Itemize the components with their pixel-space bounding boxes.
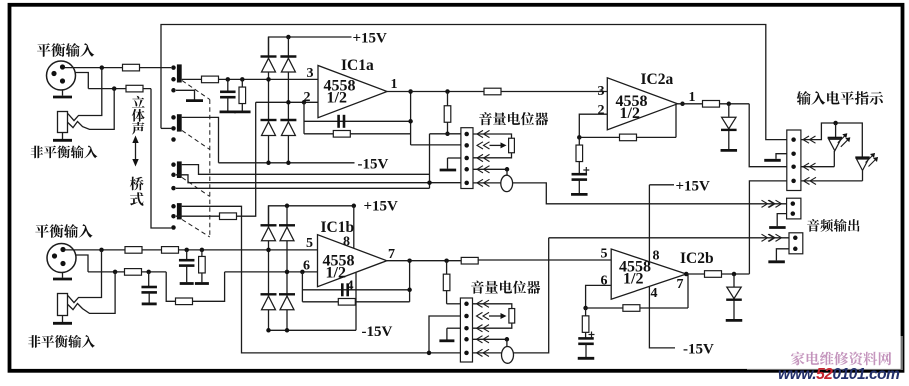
output arrows 2 bbox=[762, 234, 768, 241]
label volume pot A bbox=[479, 112, 548, 125]
+15V wire IC2b bbox=[649, 184, 674, 186]
node B1 bbox=[99, 248, 104, 253]
feedback right vertical A bbox=[410, 92, 412, 145]
capacitor C2 feedback bbox=[337, 115, 340, 128]
jack J4 body bbox=[58, 294, 68, 316]
LED D6 stem bbox=[835, 123, 837, 138]
pot B element top bbox=[473, 304, 512, 309]
node IC2a fb bbox=[577, 135, 582, 140]
diode D11 bbox=[279, 293, 295, 295]
wire row1 B bbox=[447, 303, 461, 305]
wire pot A left vertical bbox=[429, 134, 431, 189]
node fb out B bbox=[407, 258, 412, 263]
node railB -15 col1 bbox=[266, 328, 271, 333]
node rail B col2 bbox=[285, 204, 290, 209]
switch SW1 bbox=[171, 65, 176, 70]
svg-text:7: 7 bbox=[388, 247, 395, 262]
pot A element bottom bbox=[473, 153, 512, 158]
label unbalanced input A bbox=[31, 145, 98, 158]
resistor R5 feedback bbox=[333, 131, 350, 138]
jack J2 sleeve hook bbox=[68, 89, 114, 130]
wire row2 A wiper bbox=[411, 144, 461, 146]
node LED feed bbox=[727, 102, 732, 107]
feedback cap line A bbox=[304, 120, 411, 122]
feedback left vertical B bbox=[301, 272, 303, 302]
IC2b output wire bbox=[686, 273, 705, 275]
svg-text:IC1a: IC1a bbox=[341, 57, 374, 74]
wire row4 to jack B bbox=[506, 339, 508, 346]
wire B2 detour bbox=[166, 272, 175, 301]
IC2b feedback line bbox=[586, 307, 688, 309]
resistor R17 feedback bbox=[338, 299, 355, 306]
svg-text:7: 7 bbox=[677, 277, 684, 292]
wire out to LED node bbox=[720, 103, 750, 105]
row3 A ground bbox=[448, 157, 461, 159]
output 1 contacts bbox=[791, 201, 796, 206]
node C1 tap bbox=[226, 77, 231, 82]
svg-text:5: 5 bbox=[306, 236, 313, 251]
jack symbol A bbox=[501, 175, 513, 191]
capacitor C5 bbox=[148, 272, 150, 287]
wire 2 A bbox=[88, 88, 151, 90]
node fb out A bbox=[408, 89, 413, 94]
wire SW3 c3 line L3 bbox=[176, 187, 430, 189]
+15V rail B bbox=[269, 206, 354, 225]
+15V rail A bbox=[269, 37, 352, 56]
wire row4 B bbox=[473, 338, 507, 340]
LED row4 chevrons bbox=[804, 177, 810, 184]
output block 1 bbox=[787, 198, 801, 219]
capacitor C4 bbox=[186, 250, 188, 260]
op-amp IC1b bbox=[318, 235, 387, 287]
wire row5 A right bbox=[473, 182, 501, 184]
svg-text:8: 8 bbox=[653, 249, 660, 264]
svg-text:1: 1 bbox=[391, 77, 398, 92]
pot block B bbox=[460, 298, 472, 362]
pot A element top bbox=[473, 134, 512, 139]
diode D10 bbox=[261, 293, 277, 295]
resistor R10 after SW4 bbox=[220, 213, 237, 220]
wire IC1a pin2 bbox=[256, 101, 318, 103]
IC1b output wire bbox=[387, 260, 462, 262]
node pin6 fb tap bbox=[300, 270, 305, 275]
pin4 wire IC2b bbox=[649, 287, 675, 348]
svg-text:1/2: 1/2 bbox=[620, 105, 640, 122]
wire J1 pin3 chord bbox=[75, 73, 89, 89]
svg-text:2: 2 bbox=[598, 103, 605, 118]
label volume pot B bbox=[471, 281, 540, 294]
resistor R1 bbox=[123, 64, 140, 71]
node out chain A bbox=[445, 89, 450, 94]
jack J4 tip hook bbox=[68, 250, 102, 303]
resistor R2 bbox=[126, 85, 143, 92]
wire SW3 c1 line L1 bbox=[182, 165, 430, 175]
wire row4 to jack A bbox=[506, 169, 508, 175]
capacitor C7 electrolytic bbox=[578, 337, 594, 340]
svg-text:3: 3 bbox=[307, 66, 314, 81]
node A1 bbox=[100, 65, 105, 70]
resistor R12 bbox=[125, 247, 142, 254]
IC2a feedback up bbox=[675, 104, 677, 138]
node B res tap bbox=[200, 248, 205, 253]
wire to IC2a pin3 bbox=[501, 91, 607, 93]
clamp column B1 bbox=[268, 206, 270, 330]
capacitor C6 feedback bbox=[341, 283, 344, 296]
node rail -15 col2 bbox=[286, 161, 291, 166]
ground of J2 bbox=[62, 133, 64, 140]
ground of J1 bbox=[62, 90, 64, 96]
wire J1 pin2 to node A1 bbox=[65, 67, 172, 69]
node out chain B bbox=[444, 258, 449, 263]
pot element RP2 bbox=[509, 309, 515, 324]
LED block contacts bbox=[791, 137, 796, 142]
diode D5 bbox=[728, 104, 730, 117]
resistor R21 gain bbox=[585, 308, 587, 316]
wire SW4 c1 to pot B bbox=[182, 206, 461, 353]
feedback cap line B bbox=[302, 289, 409, 291]
LED row1 chevrons bbox=[803, 136, 809, 143]
LED D7 bbox=[855, 156, 869, 158]
pot B wiper arrow bbox=[489, 315, 502, 317]
resistor R7 to IC2a bbox=[484, 88, 501, 95]
resistor R8 feedback IC2a bbox=[620, 134, 637, 141]
IC2a output wire bbox=[678, 103, 703, 105]
svg-text:5: 5 bbox=[601, 247, 608, 262]
pot B chevrons bbox=[477, 300, 483, 307]
wire bus to SW2 c2 bbox=[161, 127, 171, 129]
LED D7 to row4 bbox=[862, 171, 864, 181]
pot B element bottom bbox=[473, 323, 512, 328]
output 2 ground bbox=[776, 249, 789, 261]
svg-text:1/2: 1/2 bbox=[326, 265, 346, 282]
node B2 bbox=[113, 270, 118, 275]
svg-text:IC2b: IC2b bbox=[680, 250, 714, 267]
ground of J3 bbox=[62, 273, 64, 278]
diode D2 bbox=[280, 55, 296, 57]
wire SW2 c1 to -15V rail bbox=[182, 117, 219, 162]
clamp column A1 bbox=[268, 37, 270, 163]
LED bridge wire bbox=[801, 123, 862, 157]
clamp column B2 bbox=[286, 206, 288, 330]
-15V rail B bbox=[269, 329, 357, 331]
wire R2 down to SW4 bbox=[151, 89, 171, 228]
diode D9 bbox=[279, 224, 295, 226]
capacitor C3 electrolytic bbox=[572, 173, 588, 176]
svg-text:6: 6 bbox=[601, 274, 608, 289]
dashed gang link bbox=[182, 81, 210, 100]
wire pin1 node to LED row3 bbox=[749, 104, 787, 167]
output 1 ground bbox=[777, 214, 786, 227]
wire B2 bbox=[88, 271, 166, 273]
wire B1 to IC1b pin5 bbox=[65, 249, 318, 251]
svg-text:-15V: -15V bbox=[362, 324, 393, 340]
resistor R15 bbox=[125, 269, 142, 276]
switch SW4 bbox=[171, 204, 176, 209]
row3 B ground bbox=[447, 327, 461, 329]
output block 2 bbox=[789, 233, 803, 254]
diode D12 bbox=[733, 274, 735, 287]
svg-text:www.520101.com: www.520101.com bbox=[778, 366, 900, 381]
SW1 contact3 ground bbox=[176, 90, 195, 99]
svg-text:8: 8 bbox=[343, 235, 350, 250]
node pin2 col2 bbox=[286, 100, 291, 105]
node A2 bbox=[112, 86, 117, 91]
diode D1 bbox=[261, 55, 277, 57]
wire LED row4 to IC2b out bbox=[749, 181, 786, 274]
pot A contacts bbox=[464, 132, 469, 137]
pot A chevrons bbox=[477, 130, 483, 137]
resistor R11 out bbox=[703, 101, 720, 108]
svg-text:IC2a: IC2a bbox=[641, 71, 674, 88]
node rail -15 col1 bbox=[266, 161, 271, 166]
pot B contacts bbox=[464, 302, 469, 307]
svg-text:1/2: 1/2 bbox=[327, 90, 347, 107]
node IC2a out bbox=[680, 102, 685, 107]
wire to IC2b pin5 bbox=[478, 259, 612, 261]
node IC2b out R bbox=[732, 272, 737, 277]
XLR connector J1 bbox=[47, 61, 76, 90]
resistor R4 bbox=[241, 79, 243, 87]
feedback res line B bbox=[302, 301, 409, 303]
switch SW2 bbox=[171, 115, 176, 120]
jack symbol B bbox=[502, 347, 514, 364]
resistor R22 out bbox=[705, 271, 722, 278]
clamp column A2 bbox=[287, 37, 289, 163]
wire row4 to D7 bbox=[801, 180, 863, 182]
pot A wiper arrow bbox=[490, 144, 503, 146]
node R4 tap bbox=[240, 77, 245, 82]
op-amp IC1a bbox=[318, 66, 387, 118]
mode arrow bbox=[135, 138, 137, 164]
node L2 junction bbox=[427, 180, 432, 185]
pot block A bbox=[461, 128, 473, 189]
resistor R19 to IC2b bbox=[461, 257, 478, 264]
wire B2 to IC1b pin6 bbox=[225, 271, 318, 273]
node pin5 col1 bbox=[266, 248, 271, 253]
XLR connector J3 bbox=[47, 244, 76, 273]
wire row1 A bbox=[430, 133, 461, 135]
wire out to row4 node bbox=[721, 273, 749, 275]
LED D6 bbox=[828, 137, 842, 139]
svg-text:IC1b: IC1b bbox=[321, 219, 355, 236]
diode D8 bbox=[261, 224, 277, 226]
wire J3 pin3 chord bbox=[75, 255, 88, 272]
LED row2 ground bbox=[776, 154, 787, 159]
LED row3 chevrons bbox=[803, 163, 809, 170]
wire SW1 c2 to IC1a pin3 bbox=[182, 78, 318, 80]
node pin2 feedback tap bbox=[302, 100, 307, 105]
label stereo (vertical) bbox=[132, 96, 145, 108]
op-amp IC2b bbox=[611, 249, 686, 299]
wire B2 detour up bbox=[193, 272, 225, 301]
node fb cap A bbox=[408, 119, 413, 124]
svg-text:4: 4 bbox=[651, 286, 658, 301]
jack J4 sleeve hook bbox=[68, 272, 115, 314]
svg-text:+15V: +15V bbox=[364, 199, 399, 215]
resistor R6 chain bbox=[447, 92, 449, 106]
node LED bridge bbox=[833, 121, 838, 126]
svg-text:+15V: +15V bbox=[676, 178, 711, 194]
feedback res line A bbox=[304, 133, 411, 135]
resistor R20 feedback bbox=[623, 305, 640, 312]
node rail A col2 bbox=[286, 35, 291, 40]
node IC2b fb bbox=[583, 306, 588, 311]
switch SW3 bbox=[171, 162, 176, 167]
node row4 B bbox=[505, 337, 510, 342]
label audio output bbox=[807, 219, 859, 232]
jack J2 tip hook bbox=[68, 68, 102, 121]
label balanced input B bbox=[35, 224, 92, 238]
LED block bbox=[787, 130, 801, 191]
node pin6 col2 bbox=[285, 270, 290, 275]
wire SW3 c2 line L2 bbox=[176, 175, 461, 183]
pin8 wire IC1b bbox=[353, 206, 355, 249]
ground of J4 bbox=[62, 316, 64, 323]
wire jack A to output bbox=[513, 183, 787, 204]
svg-text:+15V: +15V bbox=[353, 31, 388, 47]
IC2b feedback up bbox=[687, 274, 689, 308]
node IC2b out bbox=[684, 272, 689, 277]
watermark backdrop bbox=[747, 336, 903, 370]
svg-text:1/2: 1/2 bbox=[623, 271, 643, 288]
node fb cap B bbox=[407, 288, 412, 293]
watermark site name bbox=[791, 352, 891, 366]
wire row4 A bbox=[473, 168, 507, 170]
resistor R18 chain bbox=[446, 261, 448, 275]
resistor R3 bbox=[202, 76, 219, 83]
wire IC2a pin2 bbox=[579, 114, 607, 137]
-15V rail A bbox=[219, 162, 355, 164]
diode D4 bbox=[280, 119, 296, 121]
node pin3 col1 bbox=[266, 77, 271, 82]
feedback right vertical B bbox=[409, 261, 411, 302]
wire jack B to output bbox=[514, 238, 549, 353]
wire row2 B bbox=[429, 316, 460, 353]
op-amp IC2a bbox=[607, 78, 677, 130]
node chain row1 A bbox=[445, 132, 450, 137]
svg-text:3: 3 bbox=[598, 84, 605, 99]
svg-text:-15V: -15V bbox=[358, 156, 389, 172]
resistor R13 bbox=[162, 247, 179, 254]
resistor R14 bbox=[201, 250, 203, 257]
wire to output 2 bbox=[549, 237, 789, 239]
node B2 cap tap bbox=[146, 270, 151, 275]
resistor R9 gain bbox=[578, 137, 580, 145]
wire IC2b pin6 bbox=[586, 285, 612, 308]
label balanced input A bbox=[37, 43, 94, 57]
jack J2 body bbox=[58, 112, 68, 133]
pin4 wire IC1b bbox=[355, 273, 357, 331]
label bridge (vertical) bbox=[130, 177, 144, 191]
svg-text:-15V: -15V bbox=[683, 342, 714, 358]
svg-text:1: 1 bbox=[689, 90, 696, 105]
node row5 B bbox=[427, 351, 432, 356]
wire SW4 c2 to IC1a pin2 bbox=[176, 215, 220, 217]
label level indicator bbox=[797, 91, 883, 105]
capacitor C1 bbox=[227, 79, 229, 91]
node B cap tap bbox=[184, 248, 189, 253]
wire row3 to D6 bbox=[801, 166, 834, 168]
label unbalanced input B bbox=[28, 335, 95, 348]
IC2a feedback line bbox=[579, 136, 676, 138]
node railB -15 col2 bbox=[285, 328, 290, 333]
pin8 IC2b supply wire bbox=[648, 185, 650, 262]
resistor R16 bbox=[176, 298, 193, 305]
output 2 contacts bbox=[793, 236, 798, 241]
wire row5 B right bbox=[473, 352, 502, 354]
feedback left vertical A bbox=[303, 102, 305, 134]
diode D3 bbox=[261, 119, 277, 121]
LED D6 to row3 bbox=[833, 151, 835, 167]
output arrows 1 bbox=[762, 200, 768, 207]
pot element RP1 bbox=[509, 138, 515, 153]
top bus wire bbox=[161, 25, 787, 140]
node rail B pin8 bbox=[352, 204, 357, 209]
IC1a output wire bbox=[387, 91, 484, 93]
node row4 A bbox=[505, 167, 510, 172]
